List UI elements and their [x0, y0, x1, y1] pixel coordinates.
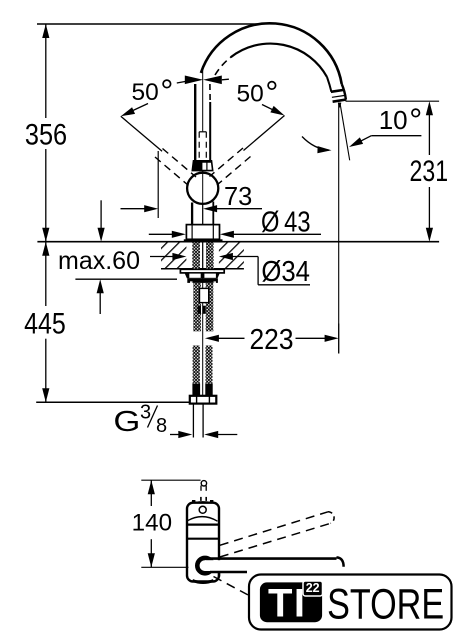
dim 140 arrowheads — [148, 480, 155, 494]
counter hatch — [161, 242, 186, 268]
svg-text:231: 231 — [410, 155, 449, 188]
base pipe — [191, 203, 193, 240]
logo TI black box — [260, 582, 322, 622]
svg-text:3: 3 — [140, 402, 151, 424]
lever pin — [201, 481, 206, 486]
spout inner arc dashed joint — [215, 57, 231, 75]
top reference line — [37, 23, 262, 25]
10deg tilted line — [340, 103, 350, 161]
50deg bowtie pivot — [177, 80, 194, 83]
flange — [186, 225, 219, 240]
hex nut — [190, 396, 217, 404]
svg-text:max.60: max.60 — [58, 247, 140, 275]
dim 73 arrowheads — [144, 205, 158, 212]
pipe body — [194, 84, 196, 161]
swivel swing arc — [302, 137, 329, 151]
spout top view: black C — [197, 558, 212, 573]
svg-text:50°: 50° — [237, 74, 279, 111]
svg-text:G: G — [113, 406, 140, 438]
svg-text:140: 140 — [132, 510, 172, 537]
svg-text:10°: 10° — [379, 102, 423, 139]
dim 223 — [217, 324, 339, 354]
hoses lower — [193, 346, 200, 384]
mounting nut — [187, 278, 218, 283]
dim O34 arrowheads — [172, 253, 186, 260]
svg-text:8: 8 — [156, 415, 167, 437]
svg-text:STORE: STORE — [327, 581, 444, 629]
dim O34 — [150, 257, 310, 285]
dim 356 arrowheads — [42, 24, 49, 38]
hoses upper — [193, 283, 201, 331]
dim 356/445 vertical line — [45, 24, 47, 118]
dashed swivel spout (upper) — [220, 512, 328, 546]
ball — [187, 173, 218, 204]
svg-text:TI: TI — [268, 582, 305, 626]
counter top line — [37, 241, 439, 243]
washer trapezoid — [185, 273, 220, 279]
svg-text:356: 356 — [25, 119, 67, 152]
dim 10deg leader arrowhead — [347, 137, 363, 150]
svg-text:50°: 50° — [132, 72, 174, 109]
stream vertical line — [338, 103, 340, 354]
centerline — [202, 66, 204, 402]
flow arrow — [338, 103, 342, 108]
shank through counter — [192, 242, 200, 269]
dim 223 arrowheads — [205, 335, 219, 342]
dashed swivel line (lower) — [214, 577, 252, 597]
dim 10deg — [353, 136, 421, 145]
dim G3/8 arrowheads — [178, 431, 192, 438]
spout inner arc solid — [231, 44, 327, 77]
dim max.60 arrowheads — [98, 228, 105, 242]
cartridge dashed box — [199, 132, 206, 160]
svg-text:22: 22 — [306, 581, 320, 595]
logo outer box — [249, 575, 452, 630]
svg-text:445: 445 — [24, 308, 66, 341]
collar — [192, 161, 212, 171]
dim 231 — [346, 101, 440, 229]
body top cap — [188, 501, 218, 506]
spout tip — [342, 84, 346, 100]
50deg right leader — [262, 105, 279, 113]
dim O43 arrowheads — [172, 231, 186, 238]
svg-text:Ø 43: Ø 43 — [261, 207, 311, 239]
base centerline over ball — [202, 172, 204, 241]
body — [187, 503, 219, 582]
dim 140 — [141, 480, 200, 567]
dim O43 — [149, 225, 321, 241]
tube — [205, 557, 337, 560]
logo 22 badge — [303, 581, 323, 596]
svg-text:73: 73 — [224, 181, 252, 211]
dim 231 arrowheads — [426, 101, 433, 115]
svg-text:223: 223 — [250, 324, 294, 356]
svg-text:Ø34: Ø34 — [261, 256, 310, 288]
washer plate — [180, 269, 224, 273]
50deg swivel dashed tubes — [121, 116, 162, 151]
bottom reference line — [36, 401, 190, 403]
max.60 dimension — [75, 200, 177, 314]
dim 73 — [121, 151, 263, 218]
50deg left leader — [126, 104, 148, 114]
dim 445 arrowheads — [42, 242, 49, 256]
spout outer arc — [201, 23, 342, 84]
dim G 3/8 — [148, 404, 238, 438]
